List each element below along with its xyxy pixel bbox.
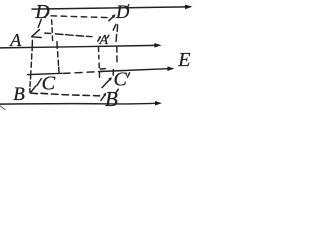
arrow tick toward B' bbox=[101, 95, 105, 101]
page crease bottom left bbox=[0, 106, 6, 110]
svg-text:D: D bbox=[34, 1, 50, 23]
prime of D' bbox=[127, 5, 129, 9]
arrow tick toward C' bbox=[102, 79, 110, 87]
arrowhead of top ray bbox=[185, 5, 193, 10]
ray through C solid right part bbox=[100, 69, 168, 72]
prime of A' bbox=[107, 35, 109, 38]
edge BC dash 1 bbox=[31, 86, 36, 92]
translation arrow A to A' dashes bbox=[45, 33, 92, 37]
edge BC dash 2 bbox=[37, 79, 42, 86]
ray through B (bottom line) bbox=[0, 102, 155, 105]
arrow tick toward D' bbox=[109, 16, 114, 21]
arrowhead of ray through C bbox=[167, 66, 174, 71]
svg-text:A: A bbox=[9, 30, 22, 50]
arrow tick toward A' bbox=[98, 37, 101, 41]
svg-text:D: D bbox=[115, 3, 130, 23]
prime of C' bbox=[127, 73, 129, 77]
edge DC dashed vertical lower part bbox=[57, 42, 59, 73]
svg-text:C: C bbox=[42, 72, 56, 94]
arrowhead at A end of dashed arrow bbox=[32, 30, 42, 38]
svg-text:E: E bbox=[177, 49, 190, 71]
svg-text:B: B bbox=[105, 87, 118, 110]
ray through A (line AE) bbox=[0, 45, 155, 48]
svg-text:B: B bbox=[13, 84, 25, 105]
edge D'A' dash 1 bbox=[113, 24, 116, 30]
edge DA dash 1 bbox=[45, 13, 47, 17]
edge D'C' dashed vertical bbox=[113, 46, 117, 75]
stray dash above C ray near C' bbox=[100, 68, 105, 70]
edge A'B' dashed vertical bbox=[99, 47, 100, 77]
translation arrow D to D' dashed line bbox=[51, 16, 108, 18]
edge D'A' dash 2 bbox=[116, 25, 118, 32]
arrowhead of bottom ray bbox=[155, 101, 162, 106]
prime of B' bbox=[116, 89, 118, 93]
svg-text:A: A bbox=[99, 33, 109, 48]
ray through C dashed middle part bbox=[64, 71, 106, 73]
edge DC dashed vertical upper part bbox=[52, 20, 53, 41]
edge D'A' dash 3 bbox=[115, 35, 118, 42]
ray through D (line DE1 top) bbox=[32, 7, 186, 9]
edge AB dashed vertical bbox=[30, 40, 33, 92]
ray through C (line CE2) solid left part bbox=[28, 73, 62, 74]
translation arrow B to B' dashes bbox=[30, 93, 99, 96]
arrowhead of ray AE bbox=[154, 43, 161, 48]
edge DA dash 2 bbox=[38, 19, 41, 27]
